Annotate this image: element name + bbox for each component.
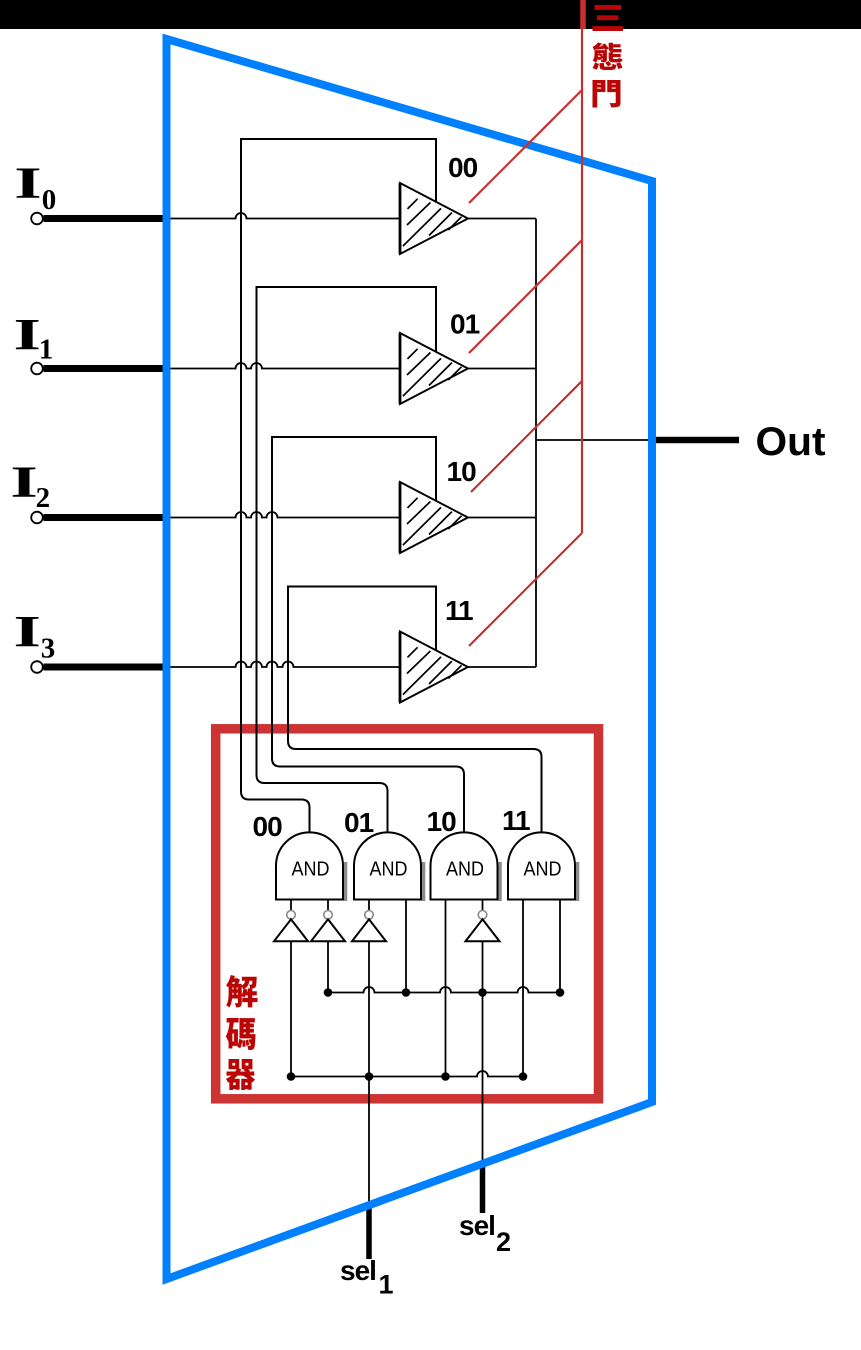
callout leader to buffer 01 [469,240,582,353]
svg-text:01: 01 [344,807,374,838]
tri-state buffer 10 [400,482,468,553]
wire I1 to buffer 1 (hops over enable wires) [168,363,400,369]
wire AND11 input B to bus1 [559,900,561,993]
MUX body (blue trapezoid) [167,39,653,1279]
wire inv B to bus1 [327,941,329,992]
input I3 terminal circle [31,661,43,673]
svg-text:sel: sel [459,1210,495,1241]
junction dot bus sel2 x=328 [324,988,333,997]
wire I2 to buffer 2 (hops over enable wires) [168,512,400,518]
sel2 thick lead [480,1164,486,1213]
AND gate 01 [354,832,424,901]
tri-state buffer 01 [400,333,468,404]
svg-text:10: 10 [427,806,457,837]
label 解碼器 (decoder) [226,975,257,1007]
AND gate 00 [276,832,346,901]
svg-text:11: 11 [502,805,530,836]
svg-text:0: 0 [42,184,57,216]
wire AND10 input A to bus2 [445,900,447,1077]
wire I3 to buffer 3 (hops over enable wires) [168,662,400,668]
wire AND01 input B to bus1 [405,900,407,993]
junction dot bus sel1 x=291 [287,1072,296,1081]
svg-text:00: 00 [253,811,283,842]
inverter B (sel2 inv for AND 00) [311,900,345,942]
input I2 terminal circle [31,512,43,524]
junction dot bus sel2 x=560 [556,988,565,997]
svg-text:I: I [10,458,37,507]
bus sel2 (horizontal, upper) [328,987,560,993]
svg-text:AND: AND [370,858,408,881]
bus sel1 (horizontal, lower) [291,1071,523,1077]
wire I0 to buffer 0 (hops over enable wires) [168,213,400,219]
inverter A (sel1 inv for AND 00) [274,900,308,942]
svg-text:01: 01 [450,309,480,340]
junction dot bus sel1 x=523 [519,1072,528,1081]
Out thick lead [651,437,739,444]
input I3 thick lead [44,664,169,671]
svg-text:3: 3 [41,633,56,665]
svg-text:2: 2 [496,1227,511,1257]
callout leader line (vertical, tri-state note) [581,0,583,533]
callout leader thick segment over title bar [580,0,586,29]
enable wire: AND 01 output to buffer 01 [257,287,437,833]
decoder red box [216,729,599,1099]
input I0 terminal circle [31,213,43,225]
svg-text:I: I [14,310,41,359]
junction dot bus sel2 x=406 [402,988,411,997]
input I2 thick lead [44,514,169,521]
junction dot bus sel1 x=369 [365,1072,374,1081]
svg-text:11: 11 [445,595,473,626]
svg-text:sel: sel [340,1255,376,1286]
svg-text:I: I [14,159,41,208]
wire inv C to bus2 / sel1 riser [368,941,370,1205]
label 三態門 (tri-state gate) [592,5,623,31]
callout leader to buffer 10 [471,381,582,492]
svg-text:AND: AND [524,858,562,881]
input I1 terminal circle [31,363,43,375]
AND gate 10 [431,832,501,901]
enable wire: AND 00 output to buffer 00 [241,139,436,833]
svg-text:2: 2 [36,482,51,514]
enable wire: AND 11 output to buffer 11 [288,587,542,834]
junction dot bus sel2 x=482.5 [478,988,487,997]
inverter C (sel1 inv for AND 01) [352,900,386,942]
input I0 thick lead [44,215,169,222]
svg-text:1: 1 [379,1270,394,1300]
inverter D (sel2 inv for AND 10) [466,900,500,942]
svg-text:1: 1 [39,334,54,366]
output bus vertical [535,219,537,668]
svg-text:10: 10 [447,456,477,487]
wire AND11 input A to bus2 [522,900,524,1077]
svg-text:I: I [14,607,41,656]
svg-text:AND: AND [446,858,484,881]
svg-text:Out: Out [756,420,826,464]
enable wire: AND 10 output to buffer 10 [272,437,464,833]
AND gate 11 [508,832,578,901]
callout leader to buffer 00 [469,90,582,203]
svg-text:AND: AND [292,858,330,881]
junction dot bus sel1 x=445.5 [441,1072,450,1081]
svg-text:00: 00 [448,152,478,183]
tri-state buffer 00 [400,183,468,254]
callout leader to buffer 11 [469,533,582,646]
buffer output stubs to output bus [468,218,536,220]
top black title bar [0,0,861,29]
wire inv D to bus1 / sel2 riser [482,941,484,1164]
sel1 thick lead [366,1205,372,1259]
wire inv A to bus2 [290,941,292,1076]
input I1 thick lead [44,365,169,372]
tri-state buffer 11 [400,632,468,703]
output tap wire [536,439,652,441]
